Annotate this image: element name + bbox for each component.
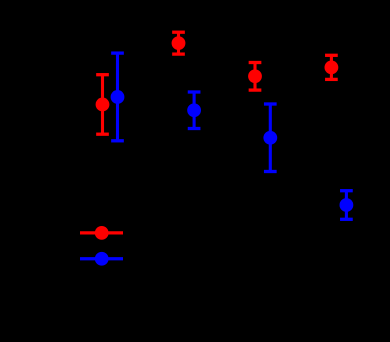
errorbar blue point 2: [187, 92, 201, 129]
legend red sample: [80, 226, 123, 240]
errorbar red point 1: [96, 75, 110, 135]
errorbar red point 4: [325, 55, 339, 79]
errorbar blue point 4: [340, 191, 354, 220]
errorbar blue point 1: [111, 53, 125, 141]
errorbar blue point 3: [263, 104, 277, 172]
errorbar red point 3: [248, 63, 262, 91]
legend blue sample: [80, 252, 123, 266]
errorbar red point 2: [172, 32, 186, 54]
